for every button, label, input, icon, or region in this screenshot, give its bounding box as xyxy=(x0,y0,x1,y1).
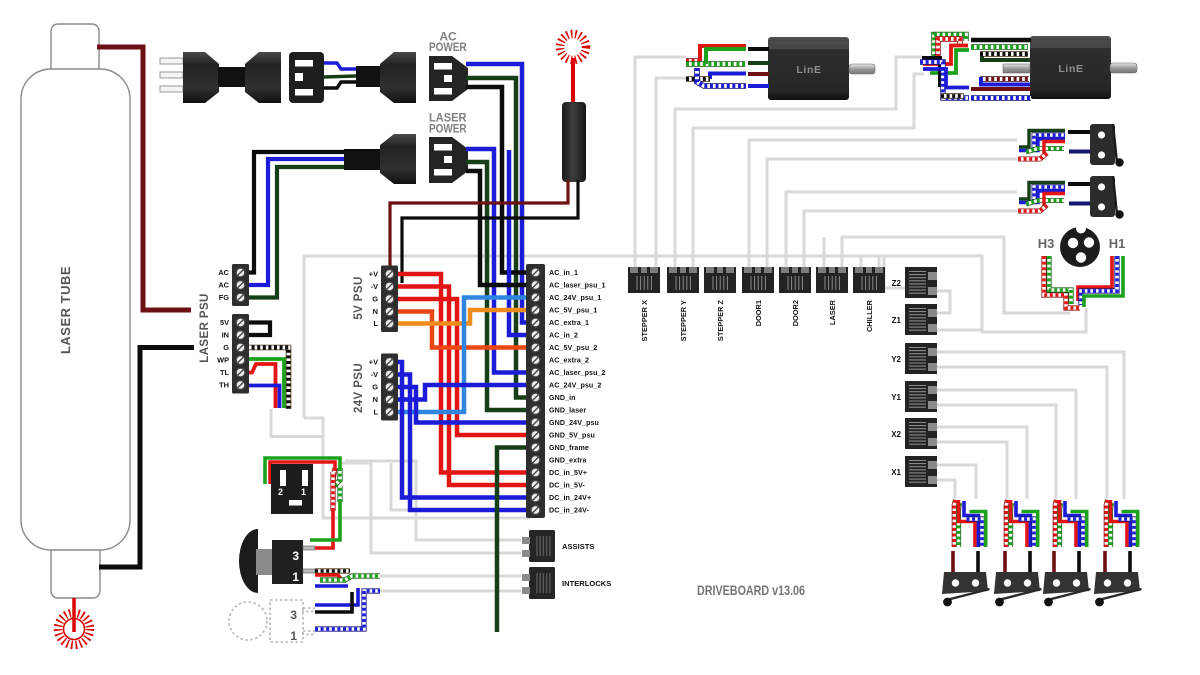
svg-text:-V: -V xyxy=(371,370,378,379)
stepper motor M1 (X) xyxy=(768,37,849,100)
micro switch Y2 xyxy=(1094,551,1142,606)
laser tube top cap xyxy=(51,24,99,84)
svg-text:+V: +V xyxy=(369,358,378,367)
wire blue laser to AC_laser_psu_2 xyxy=(466,149,532,373)
svg-text:L: L xyxy=(373,319,378,328)
svg-text:AC_24V_psu_2: AC_24V_psu_2 xyxy=(549,382,601,390)
wire red 5V +V to DC_in_5V+ xyxy=(396,274,532,473)
wire gray chiller pin stub xyxy=(860,256,863,267)
wire black tube cathode to laser psu G xyxy=(99,348,194,568)
connector CHILLER xyxy=(853,267,885,332)
wire green AC G to GND_in xyxy=(466,78,532,398)
limit switch S2 (door2) xyxy=(1018,176,1124,219)
connector Z2 xyxy=(892,267,937,298)
motor M2 wire bundle leads xyxy=(971,38,1031,42)
wire gray stub xyxy=(391,463,412,510)
limit switch S1 (door1) xyxy=(1018,124,1124,167)
svg-text:AC_5V_psu_1: AC_5V_psu_1 xyxy=(549,307,597,315)
wire blue 24V N to AC_24V_psu_2 xyxy=(396,385,532,400)
connector X2 xyxy=(891,418,937,449)
laser tube bottom cap xyxy=(51,530,100,598)
connector Y2 xyxy=(891,343,937,374)
main terminal strip TB1 xyxy=(526,264,606,518)
svg-text:DRIVEBOARD v13.06: DRIVEBOARD v13.06 xyxy=(697,582,805,598)
micro switch X1 xyxy=(942,551,990,606)
laser psu AC terminal block xyxy=(218,264,249,306)
connector DOOR2 xyxy=(779,267,811,326)
svg-text:L: L xyxy=(373,408,378,417)
svg-text:Z2: Z2 xyxy=(892,279,902,288)
wire blue 24V +V to DC_in_24V+ xyxy=(396,362,532,498)
wire maroon cylinder to 5V +V xyxy=(390,180,568,270)
wire green laser-psu cable to FG terminal xyxy=(248,167,344,298)
wire gray long psu-bundle to chiller/H1 route xyxy=(304,256,1086,418)
svg-text:GND_frame: GND_frame xyxy=(549,444,589,452)
wire gray Y2 pair to switch bundle 4 xyxy=(937,352,1124,499)
wire bundle to Y2 home switch xyxy=(1106,500,1137,547)
svg-text:DC_in_24V-: DC_in_24V- xyxy=(549,507,590,515)
wire blue laser-psu cable to AC terminal xyxy=(248,159,344,285)
wire gray Z1 lower tab xyxy=(937,329,982,332)
svg-text:LASER PSU: LASER PSU xyxy=(199,293,211,362)
wire blue 24V -V to DC_in_24V- xyxy=(396,375,532,511)
push button B1 body xyxy=(272,540,303,584)
svg-text:AC_in_1: AC_in_1 xyxy=(549,269,578,277)
laser tube body xyxy=(21,69,130,550)
wire green loop to connector 2/1 xyxy=(265,458,340,484)
round connector H (laser head) xyxy=(1060,224,1100,268)
svg-text:Y2: Y2 xyxy=(891,355,901,364)
svg-text:N: N xyxy=(373,395,378,404)
laser beam line xyxy=(72,598,76,632)
wire bundle to X1 home switch xyxy=(954,500,985,547)
connector J4 (2/1) xyxy=(271,464,313,514)
svg-text:POWER: POWER xyxy=(429,40,467,54)
wire gray door1 cable pair to limit switch S1 xyxy=(749,140,1017,267)
wire gray laser-connector to H3 connector xyxy=(842,237,1070,313)
svg-text:AC_laser_psu_2: AC_laser_psu_2 xyxy=(549,369,606,377)
svg-text:+V: +V xyxy=(369,270,378,279)
wire red H1 xyxy=(1078,256,1112,301)
wire gray stepper-y cable pair xyxy=(675,57,924,267)
svg-text:AC_extra_2: AC_extra_2 xyxy=(549,357,589,365)
svg-text:INTERLOCKS: INTERLOCKS xyxy=(562,579,611,588)
wire gray X1 pair to switch bundle 1 xyxy=(937,465,976,499)
svg-text:CHILLER: CHILLER xyxy=(865,299,874,332)
svg-text:G: G xyxy=(223,343,229,352)
wire gray Z2-Z1 loop xyxy=(937,291,950,313)
24V psu terminal block xyxy=(369,354,398,421)
svg-text:GND_24V_psu: GND_24V_psu xyxy=(549,419,599,427)
connector LASER xyxy=(816,267,848,325)
svg-text:STEPPER Z: STEPPER Z xyxy=(716,300,725,342)
svg-text:24V PSU: 24V PSU xyxy=(353,363,365,413)
svg-text:LinE: LinE xyxy=(1058,63,1083,75)
wire orange 5V L to AC_5V_psu_1 xyxy=(396,310,532,324)
motor M2 shaft right xyxy=(1110,63,1137,73)
connector INTERLOCKS xyxy=(522,567,611,599)
svg-text:X1: X1 xyxy=(891,468,901,477)
wire gray to ASSISTS pins xyxy=(345,461,521,540)
svg-text:DC_in_24V+: DC_in_24V+ xyxy=(549,494,591,502)
wire gray stepper-x cable pair xyxy=(635,57,686,267)
svg-text:X2: X2 xyxy=(891,430,901,439)
connector X1 xyxy=(891,456,937,487)
svg-text:1: 1 xyxy=(290,629,297,643)
wire red HV lead xyxy=(571,58,575,104)
wire green WP laser psu xyxy=(246,359,284,408)
svg-text:1: 1 xyxy=(292,570,299,584)
motor M1 shaft xyxy=(849,64,875,74)
wire blue to AC_in_2 xyxy=(509,150,532,335)
wire gray Y1 pair to switch bundle 3 xyxy=(937,390,1076,499)
svg-text:STEPPER X: STEPPER X xyxy=(640,300,649,342)
connector Z1 xyxy=(892,304,937,335)
beam target starburst xyxy=(58,613,90,645)
motor M2 shaft left xyxy=(1003,64,1030,73)
HV starburst xyxy=(560,34,586,60)
wire black laser-psu cable to AC terminal xyxy=(248,152,344,273)
wire black jumper 5V-IN xyxy=(246,323,270,336)
wire blue jumper J1-P2 xyxy=(324,63,356,69)
HV cylinder xyxy=(562,102,586,182)
svg-text:GND_5V_psu: GND_5V_psu xyxy=(549,432,595,440)
connector ASSISTS xyxy=(522,530,595,562)
wire blue AC N to AC_extra_1 xyxy=(466,64,532,323)
svg-text:H1: H1 xyxy=(1109,236,1126,251)
svg-text:G: G xyxy=(372,295,378,304)
wire gray to Z2 connector xyxy=(884,256,905,288)
laser psu control terminal block xyxy=(217,314,249,394)
svg-text:G: G xyxy=(372,383,378,392)
svg-text:TH: TH xyxy=(219,381,229,390)
push button B1 dome xyxy=(239,529,258,593)
svg-text:-V: -V xyxy=(371,282,378,291)
IEC outlet J1 xyxy=(289,52,324,103)
connector Y1 xyxy=(891,381,937,412)
svg-text:AC_24V_psu_1: AC_24V_psu_1 xyxy=(549,294,601,302)
svg-text:DC_in_5V+: DC_in_5V+ xyxy=(549,469,587,477)
svg-text:2: 2 xyxy=(278,487,283,497)
wire lightblue 24V L to AC_24V_psu_1 xyxy=(396,298,532,413)
wire red loop to connector 2/1 xyxy=(270,462,335,484)
wire gray psu bundle sleeve box xyxy=(271,409,323,437)
wire black cylinder to 5V -V xyxy=(402,180,578,283)
wire green button pin3 xyxy=(310,502,340,540)
svg-text:H3: H3 xyxy=(1038,236,1055,251)
wire green laser to GND_laser xyxy=(466,162,532,410)
wire gray door2 cable pair to limit switch S2 xyxy=(786,192,1017,267)
wire gray to INTERLOCKS pins xyxy=(380,575,521,578)
micro switch Y1 xyxy=(1043,551,1091,606)
svg-text:LASER TUBE: LASER TUBE xyxy=(58,266,73,354)
wire black jumper J1-P2 xyxy=(324,82,356,88)
svg-text:AC_5V_psu_2: AC_5V_psu_2 xyxy=(549,344,597,352)
wire striped green H3 xyxy=(1049,256,1071,304)
svg-text:STEPPER Y: STEPPER Y xyxy=(679,300,688,341)
svg-text:DC_in_5V-: DC_in_5V- xyxy=(549,482,586,490)
svg-text:IN: IN xyxy=(222,331,229,340)
stepper motor M2 (Y) xyxy=(1030,36,1111,99)
motor M1 wire bundle xyxy=(686,58,700,64)
svg-text:DOOR1: DOOR1 xyxy=(754,300,763,326)
wire black laser to AC_laser_psu_1 xyxy=(466,171,532,285)
wire blue 24V G to GND_24V_psu xyxy=(396,387,532,423)
svg-text:AC_in_2: AC_in_2 xyxy=(549,332,578,340)
wire blue TH laser psu xyxy=(246,386,280,409)
svg-text:LinE: LinE xyxy=(796,64,821,76)
wire green jumper J1-P2 xyxy=(324,76,356,77)
mains plug P1 body xyxy=(183,52,219,103)
svg-text:AC: AC xyxy=(218,268,229,277)
svg-text:POWER: POWER xyxy=(429,122,467,136)
svg-text:FG: FG xyxy=(219,293,230,302)
svg-text:TL: TL xyxy=(220,368,230,377)
connector STEPPER X xyxy=(628,267,660,341)
wire red-orange 5V N to AC_5V_psu_2 xyxy=(396,312,532,348)
wire gray under strip xyxy=(304,418,530,518)
wire red button pin3 xyxy=(315,511,333,548)
wire black AC L to AC_in_1 xyxy=(466,87,532,273)
wire red TL laser psu xyxy=(246,364,276,408)
svg-text:Y1: Y1 xyxy=(891,393,901,402)
wire striped G laser psu xyxy=(246,348,289,410)
svg-text:Z1: Z1 xyxy=(892,316,902,325)
LASER POWER receptacle J3 xyxy=(429,137,468,183)
wire bundle to X2 home switch xyxy=(1006,500,1037,547)
wire blue from ghost button xyxy=(315,588,358,605)
motor M2 splice cluster xyxy=(934,35,966,58)
wire gray X2 pair to switch bundle 2 xyxy=(937,427,1027,499)
wire red 5V -V to DC_in_5V- xyxy=(396,287,532,486)
svg-text:ASSISTS: ASSISTS xyxy=(562,542,595,551)
svg-text:GND_laser: GND_laser xyxy=(549,407,586,415)
svg-text:DOOR2: DOOR2 xyxy=(791,300,800,326)
micro switch X2 xyxy=(994,551,1042,606)
ghost button outline xyxy=(229,600,314,642)
svg-text:GND_extra: GND_extra xyxy=(549,457,587,465)
svg-text:AC_extra_1: AC_extra_1 xyxy=(549,319,589,327)
connector STEPPER Y xyxy=(667,267,699,341)
svg-text:AC: AC xyxy=(218,281,229,290)
svg-text:3: 3 xyxy=(292,549,299,563)
connector DOOR1 xyxy=(742,267,774,326)
mains plug P1 prongs xyxy=(160,58,183,64)
svg-text:WP: WP xyxy=(217,356,229,365)
connector STEPPER Z xyxy=(704,267,736,341)
wire maroon tube anode to laser psu xyxy=(97,47,191,310)
5V psu terminal block xyxy=(369,266,398,333)
svg-text:LASER: LASER xyxy=(828,299,837,325)
svg-text:N: N xyxy=(373,307,378,316)
wire striped red H3 xyxy=(1044,256,1080,308)
svg-text:1: 1 xyxy=(301,487,306,497)
wire green H1 xyxy=(1084,256,1123,307)
wire black from ghost button xyxy=(315,592,352,612)
svg-text:5V: 5V xyxy=(220,318,229,327)
plug P3 body xyxy=(344,149,380,170)
plug P2 body xyxy=(356,66,382,87)
wire bundle to Y1 home switch xyxy=(1055,500,1086,547)
svg-text:5V PSU: 5V PSU xyxy=(353,276,365,319)
wire striped blue H1 xyxy=(1081,256,1117,305)
wire darkgreen GND_frame stake xyxy=(497,448,532,633)
wire striped segments at 2/1 loop xyxy=(333,468,335,480)
svg-text:3: 3 xyxy=(290,608,297,622)
svg-text:AC_laser_psu_1: AC_laser_psu_1 xyxy=(549,282,606,290)
wire red 5V G to GND_5V_psu xyxy=(396,299,532,435)
motor M1 leads xyxy=(748,47,769,51)
wire striped blue from ghost button xyxy=(315,591,380,629)
wires button pin1 cluster xyxy=(315,568,350,573)
AC POWER receptacle J2 xyxy=(429,56,468,101)
svg-text:GND_in: GND_in xyxy=(549,394,576,402)
